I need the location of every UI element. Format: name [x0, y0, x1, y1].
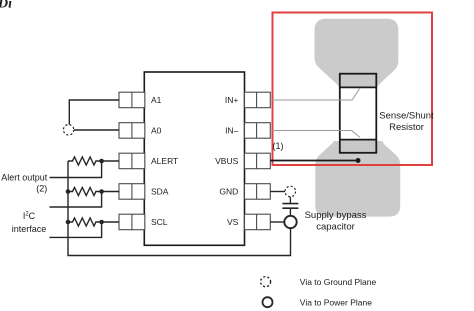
- svg-text:(1): (1): [273, 141, 284, 151]
- node junction VBUS/plane: [356, 158, 361, 163]
- svg-text:Sense/Shunt: Sense/Shunt: [379, 111, 434, 122]
- wire SDA line: [50, 192, 102, 208]
- svg-text:IN–: IN–: [225, 126, 239, 136]
- pin pad A1 (pin 1): [119, 92, 145, 108]
- wire GND to via: [270, 191, 285, 193]
- wire R1 to ALERT pad: [102, 160, 119, 162]
- pin pad SCL (pin 5): [119, 214, 145, 230]
- wire capacitor to power via: [289, 208, 291, 216]
- IC U1 body: [144, 72, 244, 245]
- svg-text:VS: VS: [227, 217, 239, 227]
- via to power plane (VS): [284, 216, 296, 228]
- svg-text:Supply bypass: Supply bypass: [305, 210, 367, 221]
- svg-text:SCL: SCL: [151, 217, 168, 227]
- power plane pour (bottom): [315, 141, 400, 217]
- node junction R1/alert line: [99, 159, 104, 164]
- wire VBUS to shunt/plane: [270, 160, 358, 162]
- svg-text:A1: A1: [151, 95, 162, 105]
- wire A1 to via: [69, 100, 119, 125]
- wire R3 to SCL pad: [102, 221, 119, 223]
- trace IN+ to shunt (kelvin): [270, 89, 359, 100]
- capacitor C1 (supply bypass): [282, 204, 298, 209]
- wire alert output line: [50, 161, 102, 178]
- pin pad ALERT (pin 3): [119, 153, 145, 169]
- clipped caption fragment top-left: [0, 0, 12, 12]
- wire SCL line: [50, 222, 102, 237]
- pin pad IN+ (pin 10): [245, 92, 271, 108]
- svg-text:capacitor: capacitor: [316, 222, 355, 233]
- ground plane pour (top): [315, 19, 399, 89]
- node junction bus/R3: [66, 220, 71, 225]
- svg-text:Via to Ground Plane: Via to Ground Plane: [300, 277, 377, 287]
- highlight box (red): [273, 13, 433, 166]
- pin pad SDA (pin 4): [119, 184, 145, 200]
- svg-text:(2): (2): [36, 184, 47, 194]
- svg-text:IN+: IN+: [225, 95, 239, 105]
- pin pad VBUS (pin 8): [245, 153, 271, 169]
- svg-text:GND: GND: [219, 187, 238, 197]
- wire via to capacitor C1: [289, 197, 291, 204]
- shunt resistor R_shunt body: [340, 74, 377, 153]
- svg-text:ALERT: ALERT: [151, 156, 178, 166]
- resistor R3 (SCL pull-up): [68, 218, 102, 226]
- via to ground plane (A0/A1 address): [63, 125, 73, 135]
- wire VS to power via: [270, 221, 284, 223]
- via to ground plane (GND): [285, 186, 296, 197]
- svg-text:VBUS: VBUS: [215, 156, 238, 166]
- node junction R2/SDA line: [99, 189, 104, 194]
- resistor R1 (ALERT pull-up): [68, 157, 102, 165]
- svg-text:Resistor: Resistor: [389, 122, 424, 133]
- svg-text:Alert output: Alert output: [1, 172, 48, 182]
- svg-text:I2C: I2C: [23, 211, 36, 221]
- svg-text:Via to Power Plane: Via to Power Plane: [300, 297, 372, 307]
- svg-text:SDA: SDA: [151, 187, 169, 197]
- resistor R2 (SDA pull-up): [68, 188, 102, 196]
- pull-up supply bus (vertical): [68, 161, 291, 256]
- pin pad IN- (pin 9): [245, 123, 271, 139]
- wire R2 to SDA pad: [102, 191, 119, 193]
- wire A0 to via: [74, 129, 119, 131]
- svg-text:interface: interface: [12, 224, 47, 234]
- node junction bus/R2: [66, 189, 71, 194]
- svg-text:Di: Di: [0, 0, 12, 12]
- pin pad A0 (pin 2): [119, 123, 145, 139]
- legend via to power plane symbol: [263, 297, 273, 307]
- legend via to ground plane symbol: [261, 277, 271, 287]
- svg-text:A0: A0: [151, 126, 162, 136]
- trace IN- to shunt (kelvin): [270, 131, 360, 138]
- pin pad GND (pin 7): [245, 184, 271, 200]
- node junction R3/SCL line: [99, 220, 104, 225]
- pin pad VS (pin 6): [245, 214, 271, 230]
